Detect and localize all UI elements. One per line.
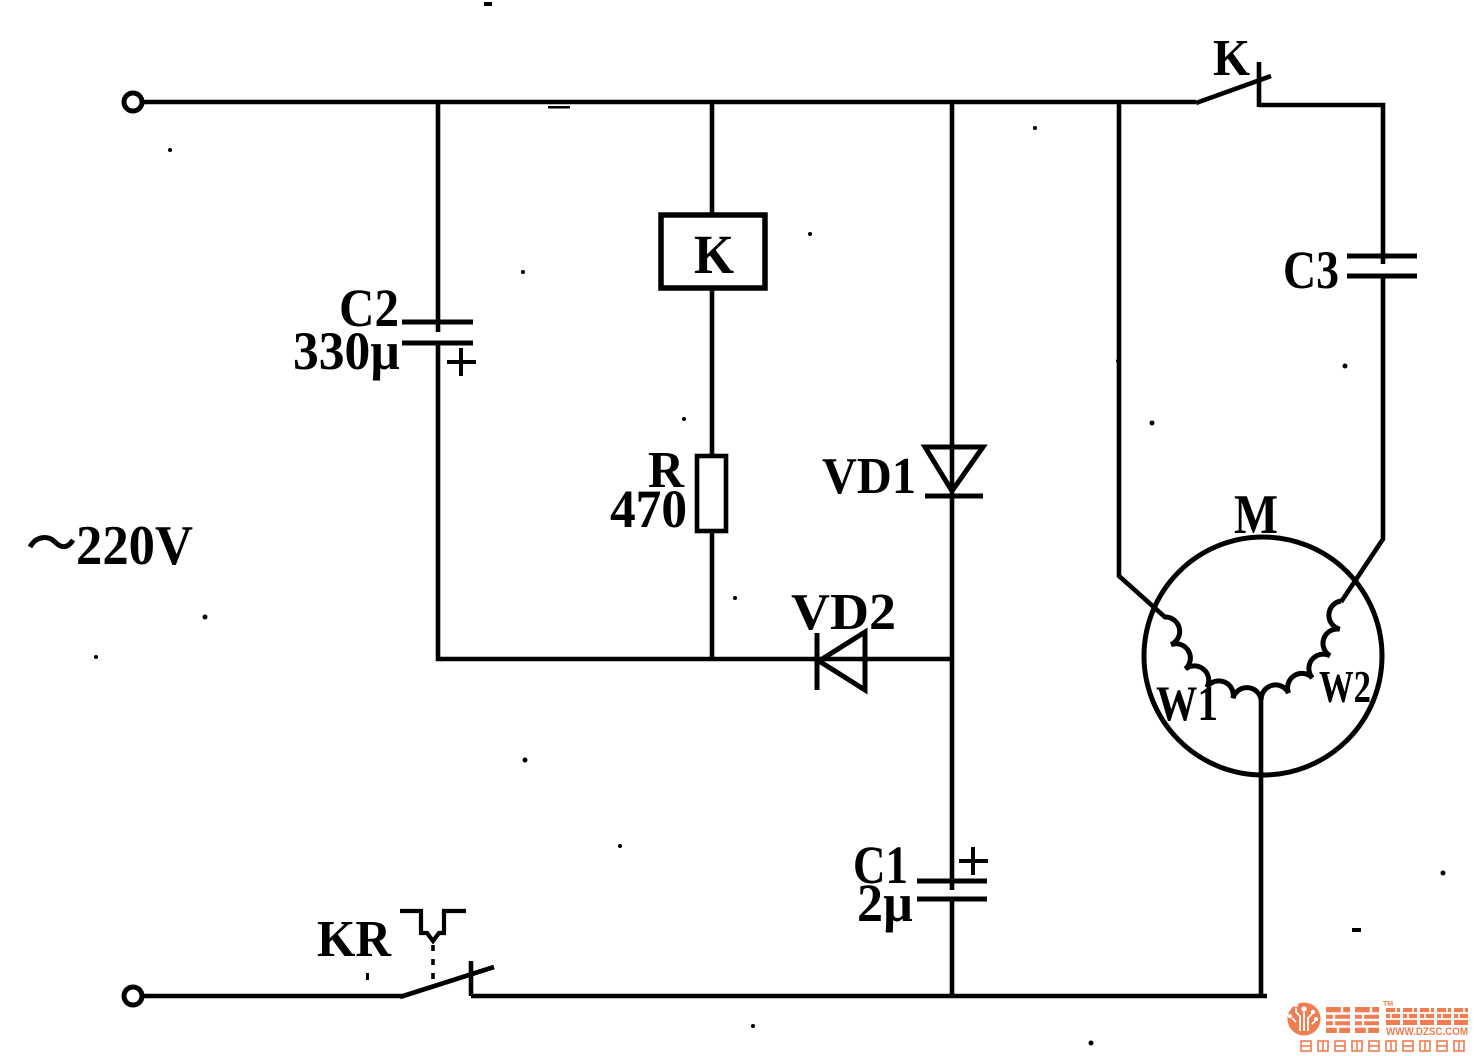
svg-text:C3: C3	[1283, 240, 1339, 300]
diode VD1	[925, 447, 983, 496]
relay coil K	[661, 215, 765, 288]
svg-text:K: K	[694, 224, 734, 285]
svg-text:VD1: VD1	[822, 448, 916, 505]
svg-text:W2: W2	[1319, 661, 1371, 712]
wire: C2 branch from top rail	[436, 102, 441, 332]
switch K contact post	[1257, 62, 1262, 107]
watermark slogan glyph blocks	[1301, 1041, 1464, 1051]
svg-text:M: M	[1234, 484, 1278, 546]
polarity plus of C1	[959, 847, 988, 875]
wire: middle vertical rail (VD1/C1 branch)	[950, 102, 955, 890]
watermark brand glyph blocks	[1326, 1007, 1468, 1033]
resistor R	[697, 456, 726, 531]
svg-text:VD2: VD2	[791, 584, 896, 641]
capacitor C3	[1347, 256, 1417, 276]
wire: top rail	[142, 100, 1196, 105]
wire: switch K to right rail	[1259, 105, 1383, 264]
watermark logo circle	[1288, 1003, 1321, 1036]
svg-text:KR: KR	[317, 911, 392, 968]
svg-text:K: K	[1213, 30, 1251, 87]
svg-text:WWW.DZSC.COM: WWW.DZSC.COM	[1386, 1026, 1468, 1038]
wire: relay coil to resistor	[710, 288, 715, 457]
svg-text:TM: TM	[1383, 1001, 1393, 1008]
wire: relay coil branch from top rail	[710, 102, 715, 216]
thermal element of KR	[400, 911, 466, 980]
terminal: AC input top-left	[124, 93, 142, 111]
terminal: AC input bottom-left	[124, 987, 142, 1005]
wire: resistor to lower-left rail	[710, 531, 715, 659]
switch KR blade	[400, 967, 494, 997]
wire: C2 bottom to lower-left rail	[436, 343, 441, 661]
polarity plus of C2	[447, 348, 476, 376]
svg-text:220V: 220V	[76, 515, 193, 577]
wire: C1 bottom to bottom rail	[950, 899, 955, 998]
switch KR contact	[469, 961, 474, 996]
wire: motor centre tap to bottom rail	[1259, 700, 1264, 996]
svg-text:470: 470	[610, 479, 687, 539]
motor M body	[1144, 537, 1382, 775]
wire: bottom rail right segment	[471, 994, 1267, 999]
wire: motor left lead from top rail	[1119, 102, 1166, 618]
wire: lower-left horizontal rail	[436, 657, 952, 662]
capacitor C2	[402, 322, 473, 343]
wire: C3 to motor right lead	[1341, 276, 1383, 602]
motor windings W1 W2	[1165, 601, 1341, 700]
diode VD2	[817, 632, 865, 690]
svg-text:330µ: 330µ	[293, 321, 400, 381]
capacitor C1	[917, 881, 987, 899]
wire: bottom rail left segment	[142, 994, 402, 999]
svg-text:2µ: 2µ	[857, 873, 913, 933]
tilde of AC source label	[30, 538, 73, 547]
switch K blade (top right)	[1196, 76, 1271, 103]
svg-text:W1: W1	[1156, 675, 1218, 731]
